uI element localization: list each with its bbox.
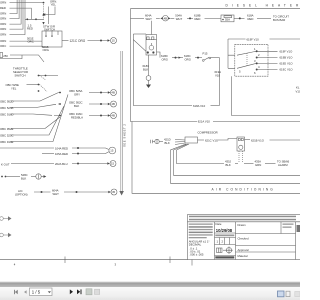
svg-text:ORC: ORC bbox=[28, 39, 34, 43]
svg-text:15: 15 bbox=[110, 149, 114, 153]
svg-text:Approval: Approval bbox=[238, 248, 249, 252]
svg-text:4B: 4B bbox=[111, 91, 115, 95]
svg-text:4B: 4B bbox=[164, 16, 168, 20]
svg-text:BLK: BLK bbox=[21, 176, 26, 180]
svg-text:ORG: ORG bbox=[185, 58, 191, 62]
svg-text:K OUT: K OUT bbox=[1, 162, 10, 166]
svg-text:619F V1O: 619F V1O bbox=[280, 49, 294, 53]
svg-text:OBC 525C: OBC 525C bbox=[0, 133, 14, 137]
svg-text:ORN: ORN bbox=[0, 12, 6, 16]
svg-text:ORN: ORN bbox=[0, 17, 6, 21]
svg-text:SWITCH: SWITCH bbox=[15, 74, 26, 78]
svg-text:121C ORG: 121C ORG bbox=[70, 39, 86, 43]
svg-text:BLK: BLK bbox=[74, 104, 79, 108]
svg-text:Date: Date bbox=[216, 222, 222, 226]
svg-text:ORN: ORN bbox=[0, 33, 6, 37]
svg-text:619D V1O: 619D V1O bbox=[280, 62, 294, 66]
svg-text:1 / 5: 1 / 5 bbox=[32, 290, 41, 295]
svg-text:619B V1O: 619B V1O bbox=[280, 56, 294, 60]
svg-text:ORG: ORG bbox=[43, 48, 49, 52]
svg-text:COMPRESSOR: COMPRESSOR bbox=[198, 130, 218, 134]
svg-text:.000 ± .005: .000 ± .005 bbox=[190, 253, 204, 257]
svg-text:DIESEL HEATER: DIESEL HEATER bbox=[226, 3, 301, 7]
svg-text:P15: P15 bbox=[203, 52, 208, 56]
svg-text:ORG: ORG bbox=[162, 58, 168, 62]
svg-text:OBC 952D: OBC 952D bbox=[0, 99, 14, 103]
svg-text:Material: Material bbox=[238, 254, 248, 258]
svg-text:202A BLU: 202A BLU bbox=[55, 162, 68, 166]
svg-text:4B: 4B bbox=[111, 102, 115, 106]
svg-text:BLK: BLK bbox=[165, 141, 170, 145]
svg-text:BUS BAR: BUS BAR bbox=[273, 18, 285, 22]
svg-text:RED: RED bbox=[27, 27, 33, 31]
svg-text:BLK: BLK bbox=[143, 68, 148, 72]
svg-text:RED: RED bbox=[195, 17, 201, 21]
svg-text:45: 45 bbox=[112, 190, 116, 194]
svg-text:15: 15 bbox=[111, 162, 115, 166]
svg-text:(OPTION): (OPTION) bbox=[15, 192, 28, 196]
svg-text:ORN: ORN bbox=[0, 22, 6, 26]
svg-text:10/29/08: 10/29/08 bbox=[216, 228, 233, 233]
svg-text:ORN: ORN bbox=[0, 39, 6, 43]
svg-text:Drawn: Drawn bbox=[238, 223, 247, 227]
svg-text:YEL: YEL bbox=[51, 2, 57, 6]
svg-text:ALARM: ALARM bbox=[278, 163, 288, 167]
svg-text:ORN: ORN bbox=[0, 27, 6, 31]
svg-text:4B: 4B bbox=[111, 114, 115, 118]
svg-text:V10: V10 bbox=[215, 73, 220, 77]
svg-text:619F V10: 619F V10 bbox=[247, 37, 260, 41]
svg-text:GRY: GRY bbox=[74, 93, 80, 97]
svg-text:105A RED: 105A RED bbox=[55, 152, 68, 156]
svg-text:WHT: WHT bbox=[176, 17, 183, 21]
svg-text:OBC 952E: OBC 952E bbox=[0, 127, 14, 131]
svg-text:OBC 916D: OBC 916D bbox=[0, 112, 14, 116]
svg-text:621C V1O: 621C V1O bbox=[205, 139, 219, 143]
svg-text:WHT: WHT bbox=[53, 192, 60, 196]
svg-text:SEE SHEET 2: SEE SHEET 2 bbox=[122, 124, 126, 147]
svg-text:250: 250 bbox=[3, 54, 8, 58]
svg-text:ORC: ORC bbox=[0, 44, 6, 48]
svg-text:YEL: YEL bbox=[11, 86, 17, 90]
svg-text:WHT: WHT bbox=[146, 17, 153, 21]
svg-text:BLK: BLK bbox=[226, 163, 231, 167]
svg-text:619C V1O: 619C V1O bbox=[280, 68, 294, 72]
svg-text:621A V10: 621A V10 bbox=[198, 120, 211, 124]
svg-text:RED: RED bbox=[0, 6, 6, 10]
svg-text:ORN: ORN bbox=[0, 1, 6, 5]
svg-text:OBC 525B: OBC 525B bbox=[0, 106, 14, 110]
svg-text:Checked: Checked bbox=[238, 237, 249, 241]
svg-text:618A V10: 618A V10 bbox=[193, 104, 206, 108]
svg-text:55A: 55A bbox=[225, 18, 230, 22]
svg-text:GRN: GRN bbox=[255, 163, 261, 167]
svg-text:RED: RED bbox=[248, 17, 254, 21]
svg-text:104A RED: 104A RED bbox=[55, 146, 68, 150]
svg-text:15: 15 bbox=[112, 39, 116, 43]
svg-text:V1O: V1O bbox=[296, 90, 301, 94]
svg-text:621B V1O: 621B V1O bbox=[251, 139, 265, 143]
svg-text:OBC 916E: OBC 916E bbox=[0, 140, 14, 144]
svg-text:RED/BLA: RED/BLA bbox=[71, 116, 83, 120]
svg-text:AIR CONDITIONING: AIR CONDITIONING bbox=[212, 188, 275, 192]
